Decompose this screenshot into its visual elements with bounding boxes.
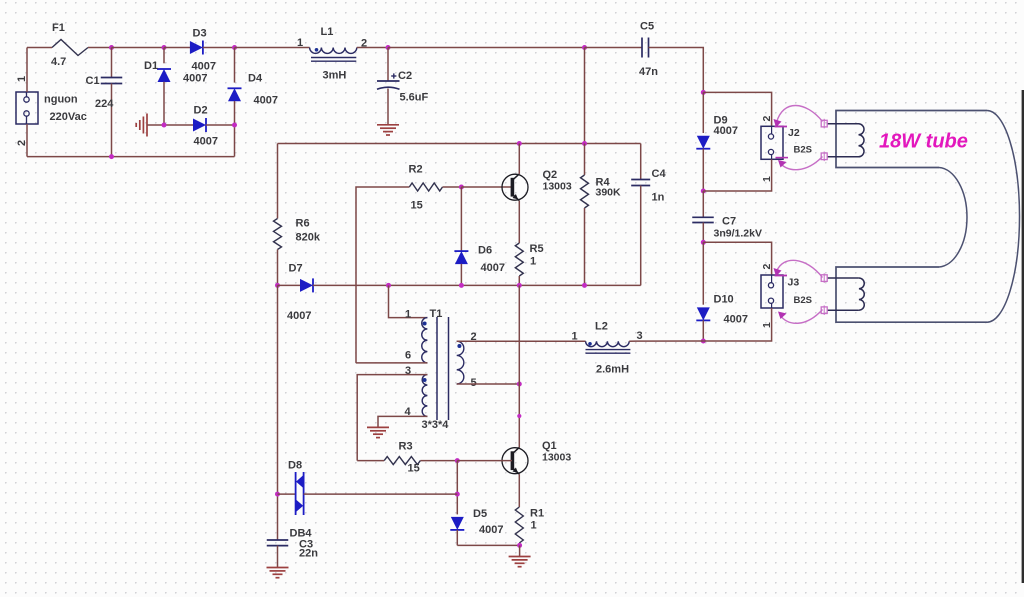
svg-text:C7: C7 [722,216,736,228]
svg-text:18W tube: 18W tube [879,131,968,153]
node R4 bottom [582,283,587,288]
wire left column to diac row [277,285,279,540]
capacitor C5 [642,38,649,58]
wire T1 pin6 [356,362,427,364]
diac D8 [278,472,458,515]
node D4 bottom [232,123,237,128]
svg-text:13003: 13003 [543,181,572,193]
connector P1 nguon 220Vac [16,92,38,124]
diode D9 [696,92,710,191]
wire C2-node to Q2 node [388,47,585,49]
resistor R6 [274,144,282,286]
svg-text:C4: C4 [652,168,667,180]
wire T1 pin5 [457,383,520,385]
svg-text:Q1: Q1 [542,440,557,452]
node below C7 [701,240,706,245]
svg-text:4007: 4007 [254,95,278,107]
node D4 top rail [232,45,237,50]
diode D5 [450,517,464,546]
inductor L1 [310,48,357,62]
18W tube outline [836,111,1020,323]
svg-text:3: 3 [637,330,643,342]
svg-text:1n: 1n [652,192,665,204]
fuse F1 [52,40,88,56]
node below D9 [701,189,706,194]
svg-text:C5: C5 [640,21,654,33]
ground under C3 [267,568,289,578]
svg-text:L2: L2 [595,321,608,333]
svg-text:3mH: 3mH [323,70,347,82]
wire R3 to D5 node [420,460,457,462]
wire T1 pin4 to ground [378,416,427,426]
wire node to Q1 base [457,460,512,462]
wire Q1 emitter to R1 [518,474,520,507]
wire D5 to R1 bottom node [457,544,519,546]
resistor R5 [515,243,523,285]
svg-text:3n9/1.2kV: 3n9/1.2kV [714,228,762,240]
svg-text:1: 1 [297,37,303,49]
wire R2 right to D6 node [443,186,462,188]
svg-text:820k: 820k [296,232,321,244]
svg-text:6: 6 [405,350,411,362]
node C1 bottom [109,154,114,159]
wire connector-1 up to top rail [26,48,28,93]
svg-text:15: 15 [408,463,420,475]
wire T1 pin2 to L2 [457,340,586,342]
wire L2 pin3 to D10 node [629,340,703,342]
node driver rail Q2 collector [517,141,522,146]
capacitor C1 [101,48,123,157]
arrow J2 top [774,105,823,127]
node D6 bottom [459,283,464,288]
diode D1 [157,48,171,126]
ground under R1 [509,545,531,566]
inductor L2 [586,341,631,353]
svg-text:1: 1 [531,520,537,532]
tube terminal squares top [821,119,827,161]
wire T1 pin3 [357,375,427,461]
node top rail x584 [582,45,587,50]
transistor Q1 13003 [502,447,528,474]
svg-text:F1: F1 [52,22,65,34]
svg-text:R5: R5 [530,243,544,255]
node C1 top [109,45,114,50]
node diac row right [455,492,460,497]
svg-text:4007: 4007 [194,136,218,148]
svg-text:C1: C1 [86,75,100,87]
arrow J3 bottom [778,310,823,324]
svg-text:R2: R2 [409,164,423,176]
svg-text:1: 1 [530,256,536,268]
svg-text:15: 15 [411,200,423,212]
svg-text:Q2: Q2 [543,169,558,181]
right edge line [1022,90,1024,583]
node T1 pin1 branch [386,283,391,288]
bottom rail of input [27,156,235,158]
transistor Q2 13003 [502,174,528,201]
wire T1 pin1 branch [389,285,428,317]
wire D5 column upper [456,461,458,515]
svg-text:390K: 390K [596,187,622,199]
arrow J2 bottom [776,157,823,170]
svg-text:nguon: nguon [44,94,78,106]
top rail wire left [27,47,52,49]
node D6 top / Q2 base [459,185,464,190]
svg-text:T1: T1 [430,308,443,320]
ground under C2 [377,125,399,135]
wire C1-node to D1 node [112,47,165,49]
capacitor C4 [631,144,650,286]
svg-text:5.6uF: 5.6uF [400,92,429,104]
arrow J3 top [774,260,823,277]
svg-text:47n: 47n [639,66,658,78]
svg-text:22n: 22n [299,548,318,560]
label nguon 220Vac [44,94,87,124]
svg-text:2.6mH: 2.6mH [596,364,629,376]
node D1 bottom [162,123,167,128]
svg-text:13003: 13003 [542,452,571,464]
svg-text:D5: D5 [473,508,487,520]
wire Q column to Q1 [518,384,520,448]
node on Q column [517,414,521,418]
tube filament bottom [827,278,864,310]
svg-text:4007: 4007 [714,125,738,137]
diode D6 [454,187,468,285]
wire to C5 left plate [585,47,643,49]
diode D3 [190,41,203,55]
driver top rail [278,143,641,145]
wire D2 cathode to D4 bottom node [206,124,235,126]
svg-text:R6: R6 [296,218,310,230]
svg-text:3*3*4: 3*3*4 [422,419,450,431]
capacitor C7 [692,191,714,242]
wire node to J3 pin2 [703,242,771,275]
svg-text:C2: C2 [398,70,412,82]
diode D7 [300,278,313,292]
connector J3 [761,275,783,308]
svg-text:4007: 4007 [724,314,748,326]
wire x584 rail drop [584,48,586,144]
svg-text:D6: D6 [478,245,492,257]
svg-text:5: 5 [471,377,477,389]
wire Q2 collector up [518,144,520,174]
wire Q column mid [518,285,520,384]
svg-text:4007: 4007 [481,262,505,274]
svg-text:4007: 4007 [192,61,216,73]
svg-text:1: 1 [405,309,411,321]
diode D4 [228,48,242,157]
svg-text:B2S: B2S [794,295,812,306]
wire node to Q2 base [461,186,512,188]
svg-text:D3: D3 [193,28,207,40]
wire ground to D2 anode [147,124,193,126]
node driver rail R4 [582,141,587,146]
svg-text:4007: 4007 [479,524,503,536]
wire connector-2 down to bottom rail [26,124,28,157]
svg-text:D1: D1 [144,60,158,72]
resistor R3 [384,457,420,465]
ground under T1 pin4 [367,427,389,437]
diode D10 [696,242,710,341]
diode D2 [193,118,206,132]
mid rail wire [313,284,641,286]
tube terminal squares bottom [821,273,827,315]
svg-text:220Vac: 220Vac [50,111,87,123]
transformer T1 [422,317,464,420]
svg-text:4007: 4007 [183,73,207,85]
node diac row left [275,492,280,497]
svg-text:J3: J3 [788,277,800,289]
node pin5 to Q column [517,382,522,387]
wire L1 pin2 to C2 node [357,47,388,49]
wire mid rail to D7 [278,284,301,286]
svg-text:2: 2 [761,116,773,122]
wire Q1 base row from T1 pin3 [357,460,384,462]
node D10 bottom [701,339,706,344]
mid rail node left [275,283,280,288]
wire F1 to C1 node [88,47,112,49]
resistor R4 [581,144,589,286]
wire to D3 anode [164,47,190,49]
svg-text:2: 2 [761,264,773,270]
wire D3 cathode to D4 node [203,47,235,49]
wire R2 left corner to T1 pin6 [356,187,409,363]
svg-text:R1: R1 [530,508,544,520]
svg-text:4.7: 4.7 [51,56,66,68]
wire R1 to ground node [518,543,520,545]
ground left of D2 [136,114,147,137]
wire J2 pin1 return [703,159,771,191]
wire D4 node to L1 pin1 [235,47,310,49]
svg-text:L1: L1 [321,26,334,38]
resistor R1 [515,507,523,543]
svg-text:D7: D7 [289,263,303,275]
wire node to J2 pin2 [703,92,771,126]
svg-text:D2: D2 [194,105,208,117]
node D5 top [455,458,460,463]
wire J3 pin1 return [703,308,771,341]
connector J2 [761,126,783,159]
node D9 top [701,90,706,95]
svg-text:D8: D8 [288,460,302,472]
node R1 bottom [517,543,522,548]
svg-text:B2S: B2S [794,145,812,156]
svg-text:J2: J2 [788,127,800,139]
tube filament top [827,124,864,157]
node R5 bottom [517,283,522,288]
capacitor C2 electrolytic [377,48,400,125]
svg-text:R3: R3 [399,441,413,453]
svg-text:1: 1 [572,331,578,343]
svg-text:D10: D10 [714,294,734,306]
svg-text:4007: 4007 [287,310,311,322]
wire C5 to right corner [649,48,704,93]
svg-text:D4: D4 [248,73,263,85]
wire Q2 emitter to R5 [518,201,520,243]
node D1 top rail [162,45,167,50]
resistor R2 [409,183,442,191]
capacitor C3 [267,540,289,567]
node C2 top [386,45,391,50]
svg-text:224: 224 [95,98,114,110]
